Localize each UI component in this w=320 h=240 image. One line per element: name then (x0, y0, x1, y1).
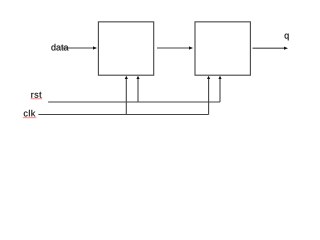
node data (51, 44, 68, 51)
wire rst to U2 (218, 76, 221, 102)
node rst (31, 92, 42, 99)
wire clk to U1 (125, 76, 128, 115)
node clk (23, 110, 36, 118)
wire data input (62, 46, 97, 49)
wire clk (38, 114, 208, 116)
node q (285, 34, 289, 41)
wire q output (253, 47, 289, 50)
wire U1 to U2 (157, 46, 193, 49)
wire rst (48, 101, 220, 103)
wire rst to U1 (136, 76, 139, 102)
wire clk to U2 (207, 76, 210, 115)
flip-flop U1 (98, 22, 153, 75)
flip-flop U2 (195, 22, 250, 75)
